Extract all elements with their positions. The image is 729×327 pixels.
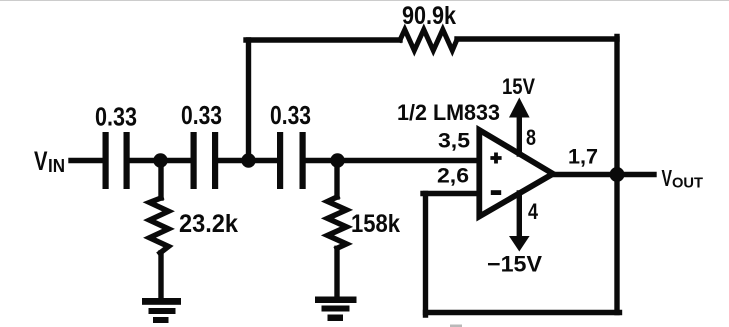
resistor R3 158k zigzag bbox=[328, 197, 347, 248]
svg-text:23.2k: 23.2k bbox=[179, 210, 238, 238]
svg-text:90.9k: 90.9k bbox=[402, 2, 456, 30]
wire: lower loop left vertical bbox=[423, 194, 428, 316]
svg-text:0.33: 0.33 bbox=[95, 102, 137, 132]
ground G1 bar 3 bbox=[153, 317, 169, 323]
svg-text:4: 4 bbox=[528, 199, 539, 224]
scan artifact: bottom faint dash bbox=[450, 325, 462, 327]
ground G2 bar 3 bbox=[328, 315, 344, 322]
wire: top feedback right segment bbox=[457, 36, 617, 41]
wire: C1 to C2 bbox=[129, 158, 192, 163]
wire: node A down to R2 bbox=[158, 161, 163, 199]
+15V arrowhead bbox=[509, 98, 530, 118]
svg-text:V: V bbox=[662, 165, 673, 191]
wire: VIN lead to C1 bbox=[71, 158, 103, 163]
capacitor C2 plate right bbox=[212, 132, 218, 189]
svg-text:V: V bbox=[34, 146, 48, 176]
capacitor C2 plate left bbox=[191, 132, 197, 189]
ground G2 bar 2 bbox=[322, 306, 350, 312]
ground G1 bar 2 bbox=[149, 308, 176, 314]
node B junction dot (feedback tap) bbox=[241, 153, 255, 167]
capacitor C3 plate left bbox=[277, 132, 283, 189]
resistor R1 90.9k zigzag bbox=[400, 30, 457, 51]
wire: op-amp output to VOUT bbox=[551, 172, 654, 177]
svg-text:OUT: OUT bbox=[672, 175, 703, 192]
capacitor C1 plate left bbox=[103, 132, 109, 189]
wire: output node down right side of lower loop bbox=[614, 175, 619, 313]
svg-text:0.33: 0.33 bbox=[270, 100, 311, 130]
ground G1 bar 1 bbox=[142, 298, 181, 305]
svg-text:15V: 15V bbox=[502, 74, 535, 99]
op-amp + input symbol bbox=[490, 153, 501, 164]
wire: R3 to ground bbox=[334, 248, 339, 296]
wire: C2 to C3 bbox=[217, 158, 278, 163]
svg-text:0.33: 0.33 bbox=[181, 100, 222, 130]
op-amp - input symbol bbox=[491, 190, 501, 195]
capacitor C1 plate right bbox=[124, 132, 130, 189]
wire: output vertical from top wire down to output node bbox=[614, 37, 619, 175]
wire: lower loop to op-amp - input bbox=[423, 191, 477, 196]
svg-text:3,5: 3,5 bbox=[438, 130, 470, 153]
node A junction dot bbox=[153, 153, 167, 167]
wire: top feedback left segment bbox=[246, 37, 400, 42]
wire: V+ supply arrow shaft (pin 8) bbox=[517, 110, 522, 154]
capacitor C3 plate right bbox=[300, 132, 306, 189]
-15V arrowhead bbox=[509, 236, 530, 252]
svg-text:2,6: 2,6 bbox=[437, 165, 469, 188]
resistor R2 23.2k zigzag bbox=[150, 198, 169, 253]
wire: feedback tap vertical from node B up to top wire bbox=[246, 40, 251, 161]
svg-text:8: 8 bbox=[526, 125, 536, 150]
svg-text:1/2 LM833: 1/2 LM833 bbox=[397, 100, 500, 125]
svg-text:158k: 158k bbox=[351, 210, 400, 238]
wire: node C down to R3 bbox=[334, 161, 339, 198]
svg-text:IN: IN bbox=[48, 156, 65, 176]
svg-text:−15V: −15V bbox=[487, 252, 542, 277]
svg-text:1,7: 1,7 bbox=[568, 146, 598, 169]
wire: V- supply arrow shaft (pin 4) bbox=[517, 193, 522, 239]
op-amp U1 triangle bbox=[479, 130, 553, 217]
wire: C3 to op-amp + input bbox=[305, 158, 477, 163]
wire: lower loop bottom segment bbox=[426, 310, 620, 315]
output node junction dot bbox=[610, 167, 625, 182]
wire: R2 to ground bbox=[158, 253, 163, 298]
ground G2 bar 1 bbox=[315, 297, 357, 304]
scan artifact: top edge line bbox=[0, 0, 729, 1]
node C junction dot bbox=[330, 153, 344, 167]
